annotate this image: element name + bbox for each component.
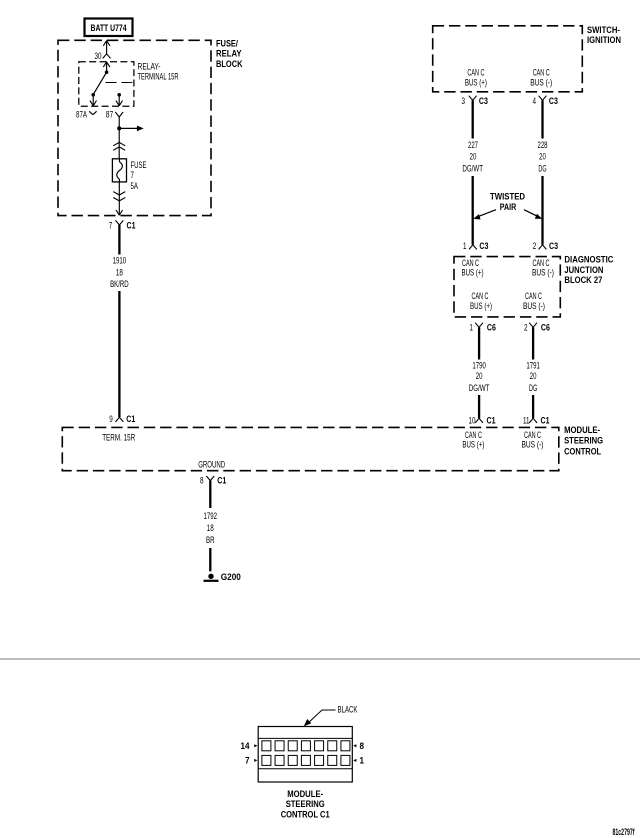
svg-text:9: 9 bbox=[109, 414, 113, 424]
svg-text:FUSE: FUSE bbox=[131, 160, 147, 170]
wire 1910 lower segment bbox=[118, 291, 120, 417]
svg-text:1: 1 bbox=[463, 241, 467, 251]
diagnostic junction block 27 box bbox=[454, 257, 560, 317]
svg-text:C3: C3 bbox=[479, 241, 488, 251]
wire junction to fuse bbox=[118, 128, 120, 158]
connector pin 11 C1 bbox=[529, 418, 533, 423]
svg-text:STEERING: STEERING bbox=[564, 436, 603, 446]
wire 227 upper segment bbox=[472, 100, 474, 138]
junction node with branch arrow bbox=[117, 126, 121, 130]
svg-text:87A: 87A bbox=[76, 110, 87, 120]
svg-text:20: 20 bbox=[470, 152, 477, 162]
svg-text:C3: C3 bbox=[549, 241, 558, 251]
svg-text:PAIR: PAIR bbox=[500, 202, 517, 212]
svg-text:18: 18 bbox=[116, 268, 123, 278]
wire 227 lower segment bbox=[472, 176, 474, 245]
svg-text:C1: C1 bbox=[217, 476, 226, 486]
svg-text:87: 87 bbox=[106, 110, 114, 120]
svg-text:MODULE-: MODULE- bbox=[287, 789, 323, 799]
svg-text:BATT U774: BATT U774 bbox=[91, 23, 127, 33]
connector cavities row 14-8 bbox=[262, 741, 271, 751]
svg-text:C6: C6 bbox=[541, 322, 550, 332]
svg-text:228: 228 bbox=[538, 140, 548, 150]
relay switch blade bbox=[93, 72, 106, 94]
svg-text:TWISTED: TWISTED bbox=[490, 192, 525, 202]
svg-text:C3: C3 bbox=[549, 96, 558, 106]
svg-text:DG: DG bbox=[538, 163, 546, 173]
wire 1792 lower segment bbox=[209, 548, 211, 571]
svg-text:BUS (-): BUS (-) bbox=[530, 77, 552, 87]
connector pin 2 C3 bbox=[539, 245, 543, 250]
module-steering control box bbox=[62, 427, 559, 470]
svg-text:8: 8 bbox=[360, 741, 365, 751]
svg-text:2: 2 bbox=[524, 322, 528, 332]
svg-text:CAN C: CAN C bbox=[467, 67, 484, 77]
wire fuse to pin 7 C1 bbox=[118, 182, 120, 215]
fuse/relay block box bbox=[58, 40, 211, 215]
svg-text:1790: 1790 bbox=[472, 360, 486, 370]
svg-text:7: 7 bbox=[109, 221, 113, 231]
wire 228 lower segment bbox=[541, 176, 543, 245]
svg-text:MODULE-: MODULE- bbox=[564, 425, 600, 435]
svg-text:C1: C1 bbox=[126, 414, 135, 424]
svg-text:BUS (+): BUS (+) bbox=[462, 440, 484, 450]
svg-text:18: 18 bbox=[207, 523, 214, 533]
connector body MODULE-STEERING CONTROL C1 bbox=[258, 727, 352, 783]
svg-text:2: 2 bbox=[533, 241, 537, 251]
svg-text:DIAGNOSTIC: DIAGNOSTIC bbox=[564, 255, 613, 265]
svg-text:JUNCTION: JUNCTION bbox=[564, 265, 603, 275]
wire 1910 18 BK/RD upper segment bbox=[118, 225, 120, 255]
connector pin 9 C1 bbox=[116, 417, 120, 422]
svg-text:7: 7 bbox=[131, 170, 135, 180]
svg-text:1910: 1910 bbox=[113, 256, 127, 266]
wire 1790 lower segment bbox=[478, 395, 480, 418]
svg-text:CAN C: CAN C bbox=[533, 67, 550, 77]
svg-text:BK/RD: BK/RD bbox=[110, 279, 129, 289]
svg-text:BUS (+): BUS (+) bbox=[470, 301, 492, 311]
svg-text:CAN C: CAN C bbox=[524, 430, 541, 440]
svg-text:STEERING: STEERING bbox=[286, 799, 325, 809]
relay coil/common pin 30 arrow bbox=[103, 62, 106, 67]
svg-text:30: 30 bbox=[95, 51, 102, 61]
svg-text:7: 7 bbox=[245, 756, 250, 766]
connector pin 1 C3 bbox=[469, 245, 473, 250]
relay contact 87A arrow bbox=[92, 95, 94, 106]
svg-text:DG: DG bbox=[529, 383, 537, 393]
svg-text:BUS (+): BUS (+) bbox=[462, 268, 484, 278]
svg-text:CONTROL: CONTROL bbox=[564, 446, 601, 456]
svg-text:4: 4 bbox=[533, 96, 537, 106]
svg-text:DG/WT: DG/WT bbox=[469, 383, 490, 393]
svg-text:BUS (-): BUS (-) bbox=[522, 440, 544, 450]
svg-text:BUS (-): BUS (-) bbox=[523, 301, 545, 311]
relay box bbox=[79, 62, 134, 106]
switch-ignition box bbox=[433, 26, 583, 92]
wire 1791 lower segment bbox=[532, 395, 534, 418]
wire 1790 upper segment bbox=[478, 327, 480, 359]
svg-text:11: 11 bbox=[523, 415, 530, 425]
svg-text:BR: BR bbox=[206, 535, 215, 545]
svg-text:RELAY-: RELAY- bbox=[138, 62, 161, 72]
svg-text:C6: C6 bbox=[487, 322, 496, 332]
svg-text:20: 20 bbox=[530, 371, 537, 381]
svg-text:227: 227 bbox=[468, 140, 478, 150]
svg-text:C1: C1 bbox=[541, 415, 550, 425]
svg-text:IGNITION: IGNITION bbox=[587, 35, 621, 45]
svg-text:1: 1 bbox=[360, 756, 365, 766]
svg-text:8: 8 bbox=[200, 476, 204, 486]
relay contact 87 arrow bbox=[117, 93, 121, 97]
svg-text:SWITCH-: SWITCH- bbox=[587, 25, 620, 35]
svg-text:CAN C: CAN C bbox=[525, 291, 542, 301]
battery feed box BATT U774 bbox=[85, 19, 133, 37]
svg-text:14: 14 bbox=[241, 741, 250, 751]
svg-text:C1: C1 bbox=[127, 221, 136, 231]
svg-text:3: 3 bbox=[462, 96, 466, 106]
twisted pair right arrow bbox=[524, 210, 539, 217]
svg-text:TERMINAL 15R: TERMINAL 15R bbox=[138, 72, 179, 82]
svg-text:G200: G200 bbox=[221, 572, 241, 582]
svg-text:C1: C1 bbox=[487, 415, 496, 425]
svg-text:FUSE/: FUSE/ bbox=[216, 38, 238, 48]
fuse F7 5A bbox=[112, 159, 126, 182]
wire 1792 upper segment bbox=[209, 481, 211, 508]
wire 1791 upper segment bbox=[532, 327, 534, 359]
connector cavities row 7-1 bbox=[262, 755, 271, 765]
twisted pair left arrow bbox=[478, 210, 497, 217]
svg-text:CAN C: CAN C bbox=[472, 291, 489, 301]
svg-text:5A: 5A bbox=[131, 181, 139, 191]
svg-text:BLOCK: BLOCK bbox=[216, 59, 243, 69]
svg-text:TERM. 15R: TERM. 15R bbox=[102, 433, 135, 443]
svg-text:CONTROL C1: CONTROL C1 bbox=[281, 809, 330, 819]
svg-text:1791: 1791 bbox=[526, 360, 540, 370]
ground G200 symbol bbox=[208, 574, 213, 579]
svg-text:20: 20 bbox=[539, 152, 546, 162]
svg-text:GROUND: GROUND bbox=[198, 460, 225, 470]
svg-text:1792: 1792 bbox=[204, 511, 218, 521]
separator line bbox=[0, 658, 640, 660]
connector pin 10 C1 bbox=[475, 418, 479, 423]
svg-text:CAN C: CAN C bbox=[465, 430, 482, 440]
svg-text:BUS (-): BUS (-) bbox=[532, 268, 554, 278]
svg-text:RELAY: RELAY bbox=[216, 49, 242, 59]
svg-text:BLOCK 27: BLOCK 27 bbox=[564, 275, 602, 285]
svg-text:BLACK: BLACK bbox=[338, 705, 358, 715]
svg-text:1: 1 bbox=[470, 322, 474, 332]
wire BATT to relay terminal 30 bbox=[103, 41, 106, 46]
svg-text:81c2797f: 81c2797f bbox=[613, 827, 636, 837]
svg-text:BUS (+): BUS (+) bbox=[465, 77, 487, 87]
wire 228 upper segment bbox=[541, 100, 543, 138]
svg-text:20: 20 bbox=[476, 371, 483, 381]
svg-text:CAN C: CAN C bbox=[533, 258, 550, 268]
svg-text:CAN C: CAN C bbox=[462, 258, 479, 268]
svg-text:10: 10 bbox=[469, 415, 476, 425]
svg-text:DG/WT: DG/WT bbox=[462, 163, 483, 173]
relay callout line bbox=[106, 82, 134, 84]
svg-text:C3: C3 bbox=[479, 96, 488, 106]
